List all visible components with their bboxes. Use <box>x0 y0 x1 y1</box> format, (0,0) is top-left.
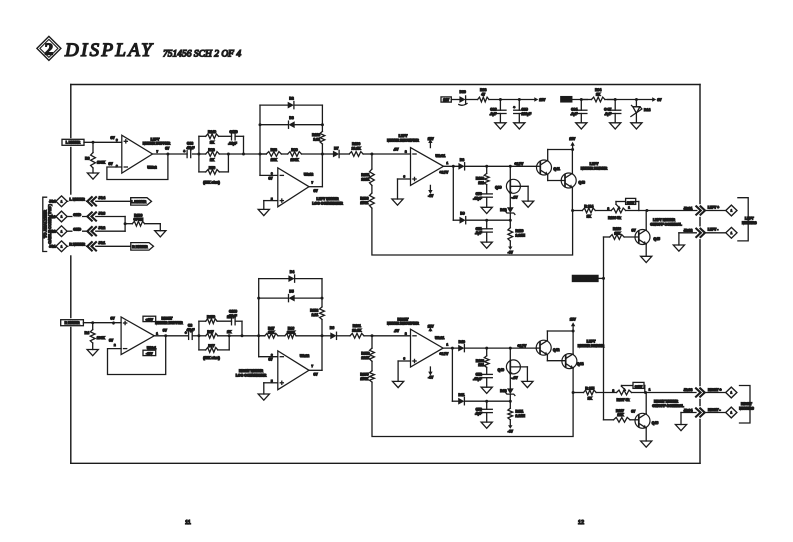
svg-text:U1:22: U1:22 <box>300 354 309 358</box>
wire <box>465 165 536 167</box>
ground <box>258 394 269 400</box>
svg-text:11: 11 <box>185 520 191 526</box>
connector pin label J4:2 <box>49 230 56 234</box>
transistor Q39 <box>495 166 528 207</box>
svg-text:R250: R250 <box>207 315 215 319</box>
note 15K ohm <box>203 356 220 360</box>
label left meter on/off control <box>650 218 682 226</box>
capacitor C169 .01uF <box>228 309 237 324</box>
junction <box>259 153 262 156</box>
svg-text:ON/OFF CONTROL: ON/OFF CONTROL <box>652 404 684 408</box>
chevron cable crossing <box>87 197 96 205</box>
junction <box>580 98 583 101</box>
meter mute vertical wire <box>603 237 605 420</box>
label right meter log converter <box>236 369 267 377</box>
ground <box>393 381 404 387</box>
diode D8 <box>458 158 464 170</box>
supply arrow -6V rectifier <box>428 367 434 380</box>
wire RC network top branch <box>199 321 206 336</box>
capacitor C89 220uF <box>514 100 532 123</box>
net label J4:2 right <box>98 226 105 230</box>
svg-text:RIGHT: RIGHT <box>162 317 174 321</box>
wire <box>84 141 122 143</box>
svg-text:C73: C73 <box>476 407 482 411</box>
svg-text:METERS: METERS <box>742 221 757 225</box>
junction <box>635 98 638 101</box>
wire <box>235 136 243 154</box>
net label J4:3 right <box>98 211 105 215</box>
label U10:2 <box>147 166 156 170</box>
wire <box>465 347 536 349</box>
label pin 5 <box>271 197 273 201</box>
svg-text:.3V: .3V <box>394 329 400 333</box>
title text DISPLAY <box>64 40 154 61</box>
junction <box>614 98 617 101</box>
wire <box>218 336 229 350</box>
op-amp U1:C1 left meter rectifier <box>411 148 444 186</box>
ground <box>675 413 686 431</box>
supply 15V driver lower <box>570 317 577 331</box>
ground <box>258 209 269 215</box>
wire <box>681 412 696 414</box>
wire <box>67 200 88 202</box>
wire <box>598 277 604 279</box>
resistor R99 100K <box>281 148 322 162</box>
capacitor C170 .01uF <box>228 130 238 146</box>
diode D4 <box>288 270 294 282</box>
label +3.7V output <box>440 161 450 175</box>
net name GND <box>73 227 83 232</box>
label RIGHT METERS <box>739 402 754 410</box>
page number 11 <box>185 520 191 526</box>
label LEFT METERS <box>742 217 757 225</box>
svg-text:+: + <box>185 331 187 335</box>
label 0V pin 6 <box>111 136 119 142</box>
junction <box>241 334 244 337</box>
svg-text:Q41: Q41 <box>554 167 561 171</box>
svg-text:2.21: 2.21 <box>313 138 320 142</box>
svg-text:J4:4: J4:4 <box>49 200 56 204</box>
wire to rectifier <box>372 153 411 155</box>
svg-text:221K: 221K <box>361 177 370 181</box>
svg-text:100K: 100K <box>290 158 299 162</box>
schematic border frame <box>71 85 700 464</box>
svg-text:J4:2: J4:2 <box>98 226 105 230</box>
svg-text:GND: GND <box>73 213 81 217</box>
resistor R117 10K <box>604 409 639 422</box>
ground <box>522 381 533 387</box>
svg-text:R4: R4 <box>85 331 89 335</box>
op-amp U10:2 left meter buffer <box>122 135 153 173</box>
connector pin label J4:3 <box>49 215 56 219</box>
wire <box>679 232 696 234</box>
svg-text:-15V: -15V <box>146 351 153 355</box>
svg-text:U10:1: U10:1 <box>147 346 156 350</box>
capacitor C73 .1uF <box>475 401 492 422</box>
svg-text:J2:02: J2:02 <box>684 229 693 233</box>
junction <box>644 391 647 394</box>
svg-text:D4: D4 <box>290 270 294 274</box>
wire 15V rail <box>489 99 534 101</box>
node R METER arrow box <box>131 243 154 251</box>
box 18V supply input <box>441 97 451 102</box>
supply arrow 15V rectifier <box>428 137 435 147</box>
resistor R249 1K <box>206 130 219 144</box>
wire D3 row <box>260 124 322 126</box>
wire rectifier plus to ground <box>398 356 410 381</box>
svg-text:J2:01: J2:01 <box>684 207 693 211</box>
svg-text:J4:1: J4:1 <box>49 245 56 249</box>
svg-text:METER BUFFER: METER BUFFER <box>143 142 171 146</box>
svg-text:-6V: -6V <box>428 194 434 198</box>
wire <box>219 154 228 172</box>
svg-text:D11: D11 <box>458 393 464 397</box>
wire lower diode branch <box>452 348 458 401</box>
svg-text:R 115: R 115 <box>585 386 594 390</box>
svg-text:LEFT: LEFT <box>399 134 409 138</box>
svg-text:CABLE CONN ( P15 ): CABLE CONN ( P15 ) <box>47 203 52 243</box>
wire D4 row <box>259 279 322 299</box>
transistor Q43 <box>561 150 585 211</box>
svg-text:ON/OFF CONTROL: ON/OFF CONTROL <box>650 223 682 227</box>
zener diode D14 <box>631 100 650 123</box>
connector J2:01 <box>684 206 727 214</box>
wire <box>595 210 611 212</box>
ground <box>523 201 534 207</box>
resistor R103 150K <box>360 186 374 209</box>
junction <box>166 153 169 156</box>
resistor R115 1K <box>573 386 596 400</box>
svg-text:LOG CONVERTER: LOG CONVERTER <box>236 373 267 377</box>
resistor R38 15K <box>260 148 281 162</box>
svg-text:D7: D7 <box>334 146 338 150</box>
label U1:22 <box>300 354 309 358</box>
label 0V pin 6 <box>268 172 273 181</box>
svg-text:METER DRIVER: METER DRIVER <box>578 344 605 348</box>
resistor R76 <box>206 166 220 175</box>
zener diode D12 <box>500 207 515 220</box>
transistor Q44 <box>562 331 584 393</box>
svg-text:R77: R77 <box>208 344 214 348</box>
transistor Q41 <box>536 150 572 181</box>
junction <box>259 123 262 126</box>
svg-text:1K: 1K <box>588 397 593 401</box>
ground <box>155 231 166 237</box>
svg-text:C72: C72 <box>476 372 482 376</box>
connector diamond J4:3 <box>56 211 67 222</box>
wire <box>467 219 511 221</box>
ground <box>87 173 98 179</box>
resistor R109 221 <box>476 166 489 194</box>
svg-text:R METER: R METER <box>132 245 148 249</box>
svg-text:15V: 15V <box>428 324 435 328</box>
svg-text:CCW: CCW <box>635 384 642 388</box>
svg-text:RIGHT METER: RIGHT METER <box>654 400 679 404</box>
junction <box>602 277 605 280</box>
svg-text:15V: 15V <box>563 98 570 102</box>
svg-text:U10:2: U10:2 <box>147 166 156 170</box>
svg-text:D30: D30 <box>460 90 466 94</box>
junction <box>509 400 512 403</box>
bracket right meters <box>740 386 751 424</box>
diode D5 <box>289 290 295 302</box>
svg-text:+: + <box>183 149 185 153</box>
label right meter buffer <box>155 317 183 325</box>
diamond LEFT + pin <box>726 205 737 216</box>
svg-text:L METER: L METER <box>131 200 146 204</box>
wire RC network bottom branch <box>199 336 206 350</box>
svg-text:.47µF: .47µF <box>473 196 482 200</box>
wire <box>67 230 88 232</box>
svg-text:150K: 150K <box>360 201 369 205</box>
svg-text:15K: 15K <box>271 158 278 162</box>
wire <box>466 99 477 101</box>
svg-text:C70: C70 <box>476 192 482 196</box>
supply arrow 15V rectifier <box>428 324 435 331</box>
wire <box>67 245 88 247</box>
svg-text:221: 221 <box>478 181 484 185</box>
resistor R37 15K <box>259 326 278 338</box>
wire lower diode branch <box>453 166 459 220</box>
svg-text:Q46: Q46 <box>652 421 659 425</box>
label 0V pin 7 <box>312 181 319 193</box>
title block diamond with revision number 2 <box>37 36 61 60</box>
svg-text:R76: R76 <box>209 166 215 170</box>
resistor R4 100K <box>85 323 106 350</box>
svg-text:R112: R112 <box>310 309 318 313</box>
resistor R98 1K <box>199 148 244 162</box>
resistor R113 2.21 <box>312 125 325 154</box>
svg-text:R103: R103 <box>360 197 368 201</box>
svg-text:+3.7V: +3.7V <box>518 344 528 348</box>
wire <box>83 322 121 324</box>
svg-text:LEFT METER: LEFT METER <box>653 218 675 222</box>
node L METER input box <box>62 139 84 145</box>
ground <box>673 233 684 251</box>
svg-text:2.21M: 2.21M <box>516 414 526 418</box>
svg-text:C8: C8 <box>188 324 192 328</box>
svg-text:100K: 100K <box>287 331 296 335</box>
resistor R100 22.1K <box>340 142 372 156</box>
svg-text:100K: 100K <box>97 336 106 340</box>
junction <box>485 165 488 168</box>
supply 15V driver <box>569 137 576 150</box>
svg-text:1K: 1K <box>596 92 601 96</box>
feedback wire from meter driver <box>372 208 573 255</box>
svg-text:R106 5k: R106 5k <box>608 216 621 220</box>
svg-text:+3.7V: +3.7V <box>440 170 450 174</box>
svg-text:12: 12 <box>578 520 584 526</box>
junction <box>321 153 324 156</box>
svg-text:METER RECTIFIER: METER RECTIFIER <box>387 322 419 326</box>
resistor R252 221K <box>361 336 374 362</box>
resistor R110 2.21M <box>508 220 525 254</box>
op-amp U1:12 left meter log converter <box>278 168 309 207</box>
svg-text:2.21: 2.21 <box>312 313 319 317</box>
svg-text:RIGHT: RIGHT <box>398 317 410 321</box>
svg-text:R113: R113 <box>312 133 320 137</box>
svg-text:15V: 15V <box>569 137 576 141</box>
junction <box>571 148 574 151</box>
svg-text:R 114: R 114 <box>584 204 593 208</box>
junction <box>485 400 488 403</box>
svg-text:J4:2: J4:2 <box>49 230 56 234</box>
junction <box>91 321 94 324</box>
resistor R77 <box>206 344 218 352</box>
diode D2 <box>288 97 294 109</box>
label 0V pin 2 <box>109 339 116 348</box>
svg-text:.1µF: .1µF <box>475 412 482 416</box>
svg-text:U1:12: U1:12 <box>304 173 313 177</box>
ground <box>641 256 652 262</box>
junction <box>124 222 127 225</box>
capacitor C70 .47uF <box>473 192 492 207</box>
arrow 15V out <box>534 97 546 102</box>
svg-text:LEFT -: LEFT - <box>708 228 719 232</box>
diode D7 <box>322 146 339 157</box>
svg-text:.1µF: .1µF <box>490 112 497 116</box>
svg-text:L METER: L METER <box>66 141 81 145</box>
junction <box>371 334 374 337</box>
label left meter rectifier <box>387 134 419 142</box>
svg-text:R38: R38 <box>271 148 277 152</box>
junction <box>452 165 455 168</box>
resistor R114 1K <box>573 204 596 218</box>
connector J2:02 <box>684 229 727 237</box>
connector diamond J4:2 <box>56 226 67 237</box>
resistor R108 221 <box>476 348 489 374</box>
svg-text:DISPLAY: DISPLAY <box>64 40 154 61</box>
connector diamond J4:1 <box>56 241 67 252</box>
zener diode D13 <box>500 388 515 401</box>
svg-text:.01µF: .01µF <box>228 314 237 318</box>
label +3.7V output <box>440 343 450 357</box>
svg-text:1K: 1K <box>210 158 215 162</box>
wire rectifier output <box>444 165 459 167</box>
wire diode feedback left leg <box>259 105 261 154</box>
capacitor C94 .1uF <box>571 100 587 123</box>
wire D2 row <box>260 105 322 125</box>
net name GND <box>73 212 83 217</box>
svg-text:GND: GND <box>73 228 81 232</box>
note 15K ohm <box>203 180 220 184</box>
resistor R116 15K <box>604 227 639 239</box>
svg-text:R99: R99 <box>291 148 297 152</box>
wire D5 row <box>259 297 322 299</box>
net name L METER <box>69 197 87 202</box>
svg-text:Q40: Q40 <box>498 368 505 372</box>
ground <box>87 350 98 356</box>
junction <box>485 347 488 350</box>
svg-text:+15V: +15V <box>146 317 154 321</box>
svg-text:.1µF: .1µF <box>475 231 482 235</box>
chevron cable crossing <box>87 227 96 235</box>
label RIGHT - <box>708 408 721 412</box>
wire to log converter minus input <box>259 336 278 357</box>
page number 12 <box>578 520 584 526</box>
op-amp U1:22 right meter log converter <box>278 351 309 390</box>
wire <box>153 153 188 155</box>
subtitle 751456 SCH 2 OF 4 <box>163 49 241 59</box>
junction <box>509 219 512 222</box>
junction <box>92 141 95 144</box>
wire <box>96 217 125 232</box>
svg-text:R105: R105 <box>360 373 368 377</box>
svg-text:METER DRIVER: METER DRIVER <box>581 166 608 170</box>
label 0V pin 6 lower <box>109 162 119 168</box>
op-amp U1:21 right meter rectifier <box>411 329 444 367</box>
svg-text:221: 221 <box>478 363 484 367</box>
svg-text:D12: D12 <box>500 208 506 212</box>
svg-text:100K: 100K <box>97 161 106 165</box>
net label J4:1 right <box>98 241 105 245</box>
junction <box>571 209 574 212</box>
wire rectifier output <box>443 347 458 349</box>
junction <box>499 98 502 101</box>
ground <box>481 207 492 213</box>
node L METER arrow box <box>131 198 152 205</box>
diamond RIGHT - pin <box>726 407 737 418</box>
wire rectifier plus to ground <box>398 174 411 199</box>
svg-text:Q45: Q45 <box>654 237 661 241</box>
connector pin label J4:1 <box>49 245 56 249</box>
vertical text TO ANALYZER <box>43 210 48 238</box>
svg-text:J4:4: J4:4 <box>98 196 105 200</box>
wire <box>626 210 697 212</box>
svg-text:+3.7V: +3.7V <box>515 162 525 166</box>
wire <box>67 216 88 218</box>
svg-text:C169: C169 <box>229 309 237 313</box>
svg-text:R98: R98 <box>208 148 214 152</box>
label RIGHT + <box>708 388 721 392</box>
svg-text:2.21M: 2.21M <box>516 234 526 238</box>
capacitor C8 47uF <box>185 324 199 340</box>
connector pin label J4:4 <box>49 200 56 204</box>
resistor R111 2.21M <box>508 401 525 433</box>
svg-text:J2:03: J2:03 <box>684 388 693 392</box>
junction <box>485 219 488 222</box>
diode D9 <box>460 212 466 224</box>
label left meter log converter <box>312 197 343 205</box>
svg-text:-6V: -6V <box>428 376 434 380</box>
chevron cable crossing <box>87 242 96 250</box>
wire to log converter minus input <box>260 154 278 175</box>
svg-text:C71: C71 <box>476 227 482 231</box>
resistor R97 1K <box>199 330 242 338</box>
svg-text:LEFT +: LEFT + <box>708 206 719 210</box>
vertical text CABLE CONN P15 <box>47 203 52 243</box>
svg-text:LEFT: LEFT <box>151 137 161 141</box>
svg-text:220µF: 220µF <box>522 112 532 116</box>
wire <box>217 320 231 322</box>
svg-text:METER RECTIFIER: METER RECTIFIER <box>387 138 419 142</box>
svg-text:RIGHT -: RIGHT - <box>708 408 721 412</box>
resistor R112 2.21 <box>310 298 324 336</box>
junction <box>370 153 373 156</box>
ground <box>481 422 492 428</box>
label U1:21 <box>435 336 444 340</box>
label LEFT + <box>708 206 719 210</box>
label 0V pin 3 <box>111 317 116 326</box>
diamond LEFT - pin <box>726 227 737 238</box>
svg-text:D8: D8 <box>460 158 464 162</box>
junction <box>197 153 200 156</box>
svg-text:18V: 18V <box>443 98 450 102</box>
svg-text:(15K ohm): (15K ohm) <box>203 356 220 360</box>
svg-text:47µF: 47µF <box>187 146 195 150</box>
resistor R250 1K <box>206 315 232 324</box>
svg-text:221K: 221K <box>361 356 370 360</box>
